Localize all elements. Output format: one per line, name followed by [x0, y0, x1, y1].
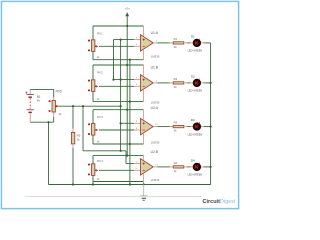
box stage3 left edge wire: [92, 110, 94, 144]
wire right rail vertical: [210, 43, 212, 185]
pin stub plus input U2: [134, 163, 141, 165]
pin stub plus input U1: [134, 39, 141, 41]
wire output to resistor R1: [158, 42, 170, 44]
svg-text:R4: R4: [174, 161, 178, 165]
junction LED D4 rail: [210, 166, 212, 168]
resistor R4 body: [173, 166, 184, 168]
svg-text:+5v: +5v: [125, 7, 130, 11]
junction node sample lower: [120, 150, 122, 152]
svg-text:U1:A: U1:A: [151, 31, 159, 35]
svg-text:U2:B: U2:B: [151, 150, 159, 154]
resistor R2 body: [173, 82, 184, 84]
junction battery bottom: [47, 121, 49, 123]
sheet background: [0, 0, 240, 210]
junction LED D3 rail: [210, 126, 212, 128]
LED D4 cathode lead: [201, 166, 204, 168]
wire sample bus vertical B: [120, 40, 122, 151]
wire sample bus vertical A: [113, 40, 115, 80]
wire output to resistor R2: [158, 82, 170, 84]
svg-text:R3: R3: [174, 121, 178, 125]
pot RV5 bottom lead: [53, 112, 55, 117]
svg-text:D2: D2: [191, 75, 195, 79]
wire ground distribution vertical: [129, 60, 131, 185]
junction power rail: [126, 25, 128, 27]
wire LED D3 to right rail: [204, 126, 211, 128]
resistor R3 left lead: [170, 126, 173, 128]
resistor R4 left lead: [170, 166, 173, 168]
op-amp U2:A ground pin: [143, 134, 145, 144]
wire power stem down: [126, 26, 128, 156]
box stage2 bottom edge wire: [93, 101, 144, 103]
junction LED D2 rail: [210, 82, 212, 84]
box stage2 top edge wire: [93, 64, 144, 66]
box stage1 top edge wire: [93, 25, 144, 27]
wire sample bus horizontal lower: [83, 150, 126, 152]
svg-text:LED-GREEN: LED-GREEN: [188, 90, 203, 93]
wire sample bus from RV5 wiper: [58, 105, 120, 107]
op-amp U2:B ground pin: [143, 174, 145, 185]
svg-text:LED-GREEN: LED-GREEN: [188, 50, 203, 53]
box stage3 bottom edge wire: [93, 143, 144, 145]
LED D1 anode lead: [190, 42, 193, 44]
svg-text:D1: D1: [191, 35, 195, 39]
wire RV3 wiper to comparator: [99, 129, 134, 131]
power arrow symbol: [125, 12, 129, 26]
potentiometer RV2 body: [92, 80, 95, 92]
potentiometer RV2 wiper arrow: [95, 85, 98, 88]
op-amp U2:B output pin stub: [153, 166, 157, 168]
op-amp U2:A output pin stub: [153, 126, 157, 128]
box stage1 left edge wire: [92, 26, 94, 60]
resistor R4 right lead: [184, 166, 187, 168]
resistor R5 bottom lead: [72, 144, 74, 148]
svg-text:CircuitDigest: CircuitDigest: [203, 199, 236, 205]
junction power box3 top: [126, 109, 128, 111]
op-amp U1:A ground pin: [143, 50, 145, 60]
op-amp U2:A power pin: [143, 110, 145, 120]
potentiometer RV5 body: [52, 100, 55, 112]
wire LED D2 to right rail: [204, 82, 211, 84]
wire battery box right edge upper: [53, 89, 55, 97]
potentiometer RV4 terminal dots: [88, 164, 90, 176]
svg-text:LED-GREEN: LED-GREEN: [188, 174, 203, 177]
junction gnd bottom rail: [129, 183, 131, 185]
junction power box2 top: [126, 64, 128, 66]
box stage4 bottom edge wire: [93, 181, 144, 183]
junction node sample bus tap: [120, 105, 122, 107]
potentiometer RV3 terminal dots: [88, 123, 90, 135]
wire output to resistor R4: [158, 166, 170, 168]
op-amp U1:B body: [141, 75, 154, 91]
op-amp U1:B input polarity marks: [143, 79, 145, 87]
wire top rail +5v: [93, 25, 144, 27]
box stage4 top edge wire: [93, 155, 144, 157]
potentiometer RV5 terminal dots: [49, 100, 51, 112]
resistor R5 top lead: [72, 129, 74, 133]
junction rail R5: [72, 183, 74, 185]
wire resistor to LED D1: [187, 42, 190, 44]
svg-text:R1: R1: [174, 37, 178, 41]
wire battery box top edge: [30, 88, 54, 90]
op-amp U1:B power pin: [143, 65, 145, 76]
junction gnd box1 bottom: [129, 59, 131, 61]
svg-text:RV2: RV2: [97, 70, 103, 74]
wire RV2 wiper to comparator: [99, 85, 134, 87]
pin stub plus input U1: [134, 79, 141, 81]
battery B1 symbol: [25, 89, 33, 122]
op-amp U1:B output pin stub: [153, 82, 157, 84]
junction node sample stage2: [120, 79, 122, 81]
svg-text:LED-GREEN: LED-GREEN: [188, 133, 203, 136]
junction node sample stage3: [120, 122, 122, 124]
wire resistor to LED D4: [187, 166, 190, 168]
LED D2 anode lead: [190, 82, 193, 84]
svg-text:RV5: RV5: [56, 90, 62, 94]
pin stub plus input U2: [134, 122, 141, 124]
op-amp U2:B power pin: [143, 156, 145, 160]
LED D3 anode lead: [190, 126, 193, 128]
box stage1 bottom edge wire: [93, 59, 144, 61]
LED D2 cathode lead: [201, 82, 204, 84]
svg-text:LM339: LM339: [151, 140, 160, 144]
op-amp U1:A power pin: [143, 26, 145, 36]
LED D3 cathode lead: [201, 126, 204, 128]
sheet border frame: [1, 1, 238, 208]
resistor R3 body: [173, 125, 184, 127]
resistor R5 body: [71, 132, 74, 144]
wire sample to plus input stage2: [114, 79, 135, 81]
op-amp U1:A body: [141, 35, 154, 51]
wire output to resistor R3: [158, 126, 170, 128]
LED D1 cathode lead: [201, 42, 204, 44]
pin stub minus input U2: [134, 169, 141, 171]
LED D1 body: [193, 39, 201, 47]
ground symbol: [140, 185, 148, 201]
wire sample to plus input stage4: [126, 163, 134, 165]
junction bus R5: [72, 105, 74, 107]
wire sample to plus input stage3: [121, 122, 134, 124]
box stage4 left edge wire: [92, 156, 94, 185]
wire sample bus vertical left: [82, 106, 84, 151]
potentiometer RV3 body: [92, 124, 95, 136]
svg-text:9V: 9V: [37, 99, 41, 103]
pin stub minus input U2: [134, 129, 141, 131]
svg-text:D3: D3: [191, 118, 195, 122]
op-amp U2:B body: [141, 159, 154, 175]
junction node sample stage1: [120, 39, 122, 41]
wire LED D1 to right rail: [204, 42, 211, 44]
potentiometer RV4 body: [92, 164, 95, 176]
junction gnd box3 bottom: [129, 143, 131, 145]
potentiometer RV3 wiper arrow: [95, 129, 98, 132]
svg-text:LM339: LM339: [151, 54, 160, 58]
svg-text:RV3: RV3: [97, 115, 103, 119]
op-amp U2:A input polarity marks: [143, 122, 145, 130]
svg-text:RV4: RV4: [97, 159, 103, 163]
potentiometer RV5 wiper arrow: [55, 105, 58, 108]
box stage2 left edge wire: [92, 65, 94, 102]
resistor R5 top lead wire: [72, 106, 74, 128]
wire sample to plus input stage1: [114, 39, 135, 41]
resistor R1 body: [173, 42, 184, 44]
op-amp U1:A input polarity marks: [143, 39, 145, 47]
junction rail gnd pin: [143, 183, 145, 185]
resistor R2 right lead: [184, 82, 187, 84]
LED D3 body: [193, 122, 201, 130]
junction gnd box2 bottom: [129, 101, 131, 103]
op-amp U2:A body: [141, 118, 154, 134]
wire battery drop to ground rail: [48, 122, 50, 184]
junction bus branch: [82, 105, 84, 107]
wire RV1 wiper to comparator: [99, 45, 134, 47]
wire resistor to LED D2: [187, 82, 190, 84]
wire battery box right edge lower: [53, 117, 55, 122]
wire LED D4 to right rail: [204, 166, 211, 168]
svg-text:R2: R2: [174, 77, 178, 81]
LED D4 body: [193, 163, 201, 171]
wire bottom ground rail: [49, 184, 211, 186]
pot RV5 top lead: [53, 97, 55, 101]
footer separator line: [25, 196, 201, 198]
LED D4 anode lead: [190, 166, 193, 168]
potentiometer RV2 terminal dots: [88, 80, 90, 92]
svg-text:U1:B: U1:B: [151, 65, 159, 69]
op-amp U2:B input polarity marks: [143, 163, 145, 171]
svg-text:D4: D4: [191, 159, 195, 163]
wire resistor to LED D3: [187, 126, 190, 128]
junction power box4 top: [126, 155, 128, 157]
potentiometer RV1 wiper arrow: [95, 45, 98, 48]
wire RV4 wiper to comparator: [99, 169, 134, 171]
potentiometer RV1 terminal dots: [88, 40, 90, 52]
wire battery box bottom edge: [30, 121, 54, 123]
op-amp U1:B ground pin: [143, 90, 145, 102]
box stage3 top edge wire: [93, 109, 144, 111]
resistor R3 right lead: [184, 126, 187, 128]
resistor R1 right lead: [184, 42, 187, 44]
junction rail box4: [92, 183, 94, 185]
potentiometer RV1 body: [92, 40, 95, 52]
junction node sample stage2b: [112, 79, 114, 81]
potentiometer RV4 wiper arrow: [95, 169, 98, 172]
pin stub minus input U1: [134, 45, 141, 47]
resistor R1 left lead: [170, 42, 173, 44]
svg-text:RV1: RV1: [97, 31, 103, 35]
svg-text:U2:A: U2:A: [151, 106, 159, 110]
svg-text:LM339: LM339: [151, 100, 160, 104]
svg-text:LM339: LM339: [151, 178, 160, 182]
wire sample feed stage4 vertical: [125, 151, 127, 164]
pin stub minus input U1: [134, 85, 141, 87]
LED D2 body: [193, 79, 201, 87]
wire R5 to ground rail: [72, 148, 74, 185]
resistor R2 left lead: [170, 82, 173, 84]
op-amp U1:A output pin stub: [153, 42, 157, 44]
